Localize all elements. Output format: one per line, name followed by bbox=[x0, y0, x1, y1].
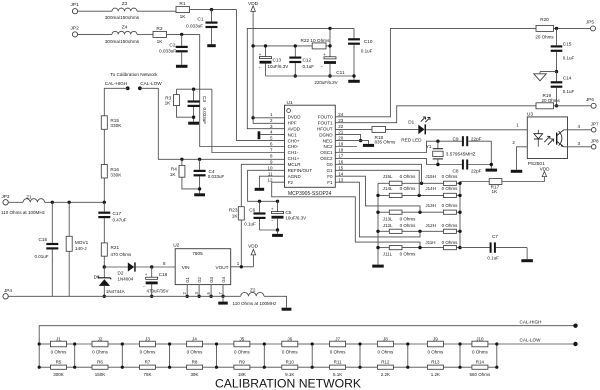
svg-text:C18: C18 bbox=[159, 272, 168, 277]
resistor R10 bbox=[282, 365, 298, 369]
wire bbox=[217, 366, 234, 368]
svg-text:Z1: Z1 bbox=[26, 194, 32, 199]
wire G1 pin15 to J14 bbox=[335, 170, 419, 195]
capacitor C15 bbox=[556, 28, 558, 45]
wire bbox=[402, 230, 444, 232]
svg-text:0.033uF: 0.033uF bbox=[208, 174, 225, 179]
svg-text:R7: R7 bbox=[145, 360, 151, 365]
wire bbox=[378, 182, 389, 184]
svg-text:JP6: JP6 bbox=[586, 97, 594, 102]
wire AGND pin11 bbox=[259, 176, 284, 188]
svg-text:C2: C2 bbox=[169, 42, 175, 48]
wire FOUT1 net bbox=[335, 106, 536, 123]
svg-text:C11: C11 bbox=[336, 70, 345, 75]
ground Z2 bbox=[282, 308, 292, 311]
wire CAL-HIGH bus bbox=[39, 326, 575, 344]
svg-text:0 Ohms: 0 Ohms bbox=[400, 186, 417, 191]
svg-text:R8: R8 bbox=[192, 360, 198, 365]
wire divider bbox=[169, 344, 171, 367]
svg-text:CAL-HIGH: CAL-HIGH bbox=[520, 319, 542, 324]
capacitor C7 bbox=[460, 247, 490, 249]
wire bbox=[554, 105, 592, 107]
node bbox=[376, 246, 379, 249]
svg-text:J12H: J12H bbox=[425, 223, 436, 228]
node bbox=[263, 342, 266, 345]
svg-text:JP7: JP7 bbox=[591, 121, 599, 126]
connector JP4 bbox=[3, 294, 8, 299]
wire bbox=[378, 230, 389, 232]
inductor Z3 bbox=[112, 8, 137, 11]
svg-text:0.1uF: 0.1uF bbox=[563, 55, 575, 60]
svg-text:MOV1: MOV1 bbox=[75, 240, 89, 245]
svg-text:C16: C16 bbox=[39, 237, 48, 242]
wire divider bbox=[74, 344, 76, 367]
svg-text:JP8: JP8 bbox=[591, 138, 599, 143]
svg-text:G0: G0 bbox=[327, 162, 334, 167]
svg-text:20 Ohms: 20 Ohms bbox=[535, 34, 554, 39]
svg-text:12: 12 bbox=[267, 177, 273, 182]
wire bbox=[137, 33, 153, 35]
wire bbox=[386, 128, 419, 130]
svg-text:Z3: Z3 bbox=[122, 1, 128, 7]
resistor R17 bbox=[460, 181, 489, 183]
wire bbox=[402, 211, 444, 213]
wire divider bbox=[263, 344, 265, 367]
svg-text:R14: R14 bbox=[476, 360, 485, 365]
svg-text:-: - bbox=[259, 64, 261, 70]
svg-text:0.033uF: 0.033uF bbox=[186, 24, 203, 29]
wire bbox=[8, 201, 23, 203]
resistor R20 bbox=[536, 25, 554, 31]
svg-text:0 Ohms: 0 Ohms bbox=[442, 223, 459, 228]
connector JP1 bbox=[72, 9, 77, 14]
wire F1 pin13 to J12 bbox=[335, 182, 420, 237]
jumper J13H bbox=[444, 210, 457, 214]
svg-text:17: 17 bbox=[338, 154, 344, 159]
ground R4/C4 bbox=[194, 193, 205, 196]
node bbox=[420, 182, 423, 185]
node DVDD bbox=[251, 116, 254, 119]
resistor R8 bbox=[187, 365, 203, 369]
wire bbox=[75, 366, 92, 368]
capacitor C12 bbox=[294, 46, 296, 57]
svg-text:15: 15 bbox=[338, 165, 344, 170]
svg-text:75K: 75K bbox=[143, 372, 151, 377]
svg-text:DVDD: DVDD bbox=[288, 115, 302, 120]
wire bbox=[402, 247, 444, 249]
svg-text:VDD: VDD bbox=[540, 166, 551, 171]
jumper J5 bbox=[234, 341, 250, 347]
svg-text:AVDD: AVDD bbox=[288, 126, 301, 131]
wire bbox=[312, 343, 329, 345]
wire bbox=[402, 194, 444, 196]
svg-text:R11: R11 bbox=[334, 360, 342, 365]
wire line rail bbox=[45, 201, 105, 203]
svg-text:0 Ohms: 0 Ohms bbox=[472, 350, 489, 355]
connector JP6 bbox=[591, 103, 596, 108]
svg-text:CAL-LOW: CAL-LOW bbox=[140, 81, 162, 86]
wire divider bbox=[459, 344, 461, 367]
svg-text:JP1: JP1 bbox=[71, 2, 80, 8]
svg-text:24: 24 bbox=[338, 112, 344, 117]
svg-text:VOUT: VOUT bbox=[215, 265, 228, 270]
node bbox=[376, 230, 379, 233]
wire VDD rail2 bbox=[253, 45, 312, 47]
wire HFOUT pin22 bbox=[335, 128, 372, 130]
svg-text:1K: 1K bbox=[165, 101, 172, 106]
capacitor C3 bbox=[192, 88, 195, 91]
wire bbox=[456, 182, 460, 184]
svg-text:-: - bbox=[321, 64, 323, 70]
svg-text:G1: G1 bbox=[185, 276, 190, 282]
svg-text:To Calibration Network: To Calibration Network bbox=[110, 72, 158, 77]
svg-text:CALIBRATION NETWORK: CALIBRATION NETWORK bbox=[215, 377, 361, 390]
svg-text:CH1-: CH1- bbox=[288, 150, 299, 155]
ground AGND bbox=[255, 188, 265, 191]
svg-text:0.033uF: 0.033uF bbox=[202, 108, 207, 125]
wire CAL-LOW to CH1+ bbox=[140, 88, 285, 159]
svg-text:VDD: VDD bbox=[248, 243, 259, 248]
wire bbox=[122, 343, 139, 345]
svg-text:VIN: VIN bbox=[182, 265, 190, 270]
svg-text:0 Ohms: 0 Ohms bbox=[400, 217, 417, 222]
inductor Z4 bbox=[112, 31, 137, 34]
ground R3/C3 bbox=[188, 122, 199, 125]
node bbox=[73, 342, 76, 345]
svg-text:0 Ohms: 0 Ohms bbox=[442, 186, 459, 191]
svg-text:J2: J2 bbox=[98, 336, 103, 341]
svg-text:14: 14 bbox=[338, 171, 344, 176]
wire divider bbox=[407, 344, 409, 367]
svg-text:R20: R20 bbox=[540, 17, 549, 22]
resistor R3 bbox=[176, 89, 178, 94]
resistor R19 bbox=[536, 103, 554, 109]
ground C1 bbox=[207, 44, 216, 47]
jumper J8 bbox=[377, 341, 393, 347]
wire CH1- bbox=[212, 89, 285, 152]
capacitor C11 bbox=[329, 28, 331, 56]
svg-text:2.2K: 2.2K bbox=[381, 372, 390, 377]
node bbox=[376, 194, 379, 197]
wire bbox=[170, 343, 187, 345]
wire bbox=[122, 366, 139, 368]
svg-text:1.2K: 1.2K bbox=[431, 372, 440, 377]
svg-text:1N4004: 1N4004 bbox=[118, 277, 134, 282]
wire bbox=[456, 230, 460, 232]
U3 phototransistor bbox=[556, 133, 558, 145]
svg-text:JP2: JP2 bbox=[71, 25, 80, 31]
wire U3 pin4 to JP7 bbox=[564, 129, 592, 131]
wire F0 pin14 to J13 bbox=[335, 176, 420, 212]
node R1 out bbox=[210, 8, 213, 11]
diode D2 1N4004 bbox=[104, 266, 128, 268]
jumper J1 bbox=[51, 341, 67, 347]
svg-text:300K: 300K bbox=[53, 372, 64, 377]
resistor R21 bbox=[101, 243, 107, 256]
svg-text:OSC1: OSC1 bbox=[320, 150, 333, 155]
svg-text:140-J: 140-J bbox=[75, 246, 87, 251]
svg-text:470 Ohms: 470 Ohms bbox=[111, 252, 133, 257]
wire U3 pin2 to ground bbox=[517, 147, 528, 170]
node bbox=[251, 44, 254, 47]
wire bbox=[468, 140, 491, 142]
wire left end bbox=[38, 344, 40, 367]
capacitor C13 bbox=[265, 46, 267, 57]
svg-text:3.579545MHZ: 3.579545MHZ bbox=[446, 151, 476, 156]
jumper J4 bbox=[187, 341, 203, 347]
svg-text:J11H: J11H bbox=[425, 240, 435, 245]
wire bbox=[104, 88, 127, 116]
svg-text:R6: R6 bbox=[97, 360, 103, 365]
wire pin1 bbox=[253, 117, 284, 119]
jumper J12H bbox=[444, 229, 457, 233]
svg-text:18: 18 bbox=[338, 148, 344, 153]
wire R17 to VDD bbox=[502, 177, 545, 182]
resistor R2 bbox=[153, 31, 167, 37]
svg-text:0 Ohms: 0 Ohms bbox=[400, 252, 417, 257]
node bbox=[458, 211, 461, 214]
svg-text:330K: 330K bbox=[110, 172, 122, 177]
wire bbox=[103, 178, 105, 202]
wire bbox=[39, 343, 50, 345]
wire VOUT to VDD bbox=[231, 266, 254, 268]
ground bar NC1 bbox=[258, 131, 261, 139]
ground oscillator bbox=[486, 169, 498, 172]
node bbox=[418, 211, 421, 214]
node bbox=[376, 211, 379, 214]
wire bbox=[456, 247, 460, 249]
svg-text:D2: D2 bbox=[118, 270, 124, 275]
svg-text:0 Ohms: 0 Ohms bbox=[442, 240, 459, 245]
capacitor C8 bbox=[462, 160, 464, 170]
node bbox=[168, 342, 171, 345]
svg-text:23: 23 bbox=[338, 118, 344, 123]
svg-text:NEG: NEG bbox=[323, 138, 333, 143]
node rail C11 bbox=[328, 27, 331, 30]
op-amp U1 MCP3905 box bbox=[285, 105, 336, 187]
svg-text:0 Ohms: 0 Ohms bbox=[187, 350, 204, 355]
wire bbox=[75, 343, 92, 345]
wire R3/C3 node bbox=[177, 88, 212, 90]
wire F2 pin12 to J11 row bbox=[272, 182, 420, 247]
svg-text:Y1: Y1 bbox=[426, 144, 432, 149]
resistor R18 bbox=[372, 126, 386, 132]
node bbox=[358, 342, 361, 345]
wire CH0+ bbox=[237, 10, 285, 141]
wire divider bbox=[359, 344, 361, 367]
wire VDD to DVDD/HPF bbox=[253, 11, 284, 123]
svg-text:C12: C12 bbox=[303, 58, 312, 63]
svg-text:0 Ohms: 0 Ohms bbox=[92, 350, 109, 355]
zener D3 1N4744A bbox=[103, 267, 105, 278]
svg-text:JP3: JP3 bbox=[2, 194, 10, 199]
capacitor C6 bbox=[258, 200, 261, 203]
wire bbox=[378, 211, 389, 213]
svg-text:U1: U1 bbox=[287, 100, 293, 106]
wire bbox=[408, 343, 428, 345]
wire bbox=[378, 247, 389, 249]
wire bbox=[326, 45, 330, 47]
svg-text:U3: U3 bbox=[527, 111, 533, 117]
regulator U2 7805 bbox=[175, 249, 231, 285]
svg-text:11: 11 bbox=[268, 171, 273, 176]
wire CH0- bbox=[200, 34, 285, 146]
wire bbox=[217, 343, 234, 345]
wire bbox=[554, 27, 591, 29]
svg-text:+: + bbox=[145, 272, 148, 277]
wire left jumper bus bbox=[377, 183, 379, 264]
svg-text:HFOUT: HFOUT bbox=[317, 126, 333, 131]
jumper J14H bbox=[444, 193, 457, 197]
ground bbox=[272, 234, 283, 237]
svg-text:150K: 150K bbox=[95, 372, 106, 377]
wire bbox=[78, 10, 112, 12]
svg-text:21: 21 bbox=[338, 130, 344, 135]
ground C7 bbox=[521, 259, 533, 262]
wire ground return rail bbox=[266, 75, 355, 77]
svg-text:R5: R5 bbox=[56, 360, 62, 365]
jumper J12L bbox=[389, 229, 402, 233]
svg-text:G4: G4 bbox=[221, 276, 226, 282]
svg-text:FOUT0: FOUT0 bbox=[318, 115, 333, 120]
node CAL-HIGH bbox=[573, 324, 577, 328]
svg-text:D1: D1 bbox=[408, 119, 414, 124]
svg-text:C5: C5 bbox=[285, 210, 291, 215]
svg-text:C6: C6 bbox=[249, 208, 255, 213]
wire C5/C6 ground bbox=[260, 229, 278, 231]
svg-text:J12L: J12L bbox=[383, 223, 393, 228]
svg-text:J6: J6 bbox=[287, 336, 292, 341]
capacitor C5 bbox=[276, 200, 279, 203]
svg-text:G1: G1 bbox=[327, 168, 334, 173]
svg-text:1K: 1K bbox=[157, 39, 164, 45]
resistor R7 bbox=[139, 365, 155, 369]
svg-text:470uF/35V: 470uF/35V bbox=[147, 289, 169, 294]
svg-text:CAL-LOW: CAL-LOW bbox=[520, 337, 542, 342]
svg-text:1N4744A: 1N4744A bbox=[106, 289, 125, 294]
svg-text:0 Ohms: 0 Ohms bbox=[234, 350, 251, 355]
wire U3 pin3 to JP8 bbox=[564, 146, 592, 148]
svg-text:J14L: J14L bbox=[383, 186, 393, 191]
wire DGND pin21 bbox=[335, 135, 360, 141]
svg-text:R22 10 Ohms: R22 10 Ohms bbox=[301, 38, 331, 43]
svg-text:0 Ohms: 0 Ohms bbox=[400, 223, 417, 228]
optocoupler U3 PS2501 bbox=[527, 117, 567, 159]
wire bottom rail bbox=[8, 295, 240, 297]
svg-text:0.1uF: 0.1uF bbox=[361, 49, 373, 54]
U3 light arrows bbox=[544, 136, 550, 142]
svg-text:NC2: NC2 bbox=[323, 144, 333, 149]
wire osc ground bbox=[490, 141, 492, 168]
svg-text:F0: F0 bbox=[327, 174, 333, 179]
svg-text:FOUT1: FOUT1 bbox=[318, 120, 333, 125]
svg-text:0.1uF: 0.1uF bbox=[563, 89, 575, 94]
node bbox=[215, 342, 218, 345]
svg-text:CAL-HIGH: CAL-HIGH bbox=[105, 81, 127, 86]
svg-text:300ma/150ohms: 300ma/150ohms bbox=[105, 15, 140, 20]
inductor Z1 bbox=[23, 199, 45, 203]
svg-text:0 Ohms: 0 Ohms bbox=[400, 174, 417, 179]
node bbox=[458, 182, 461, 185]
wire AVDD rail bbox=[247, 28, 354, 128]
resistor R9 bbox=[234, 365, 250, 369]
svg-text:22: 22 bbox=[338, 124, 344, 129]
resistor R5 bbox=[51, 365, 67, 369]
svg-text:C7: C7 bbox=[492, 234, 498, 239]
svg-text:J8: J8 bbox=[383, 336, 388, 341]
node bbox=[311, 342, 314, 345]
wire CAL-LOW tail bbox=[497, 343, 576, 345]
svg-text:J10: J10 bbox=[476, 336, 484, 341]
svg-text:RED LED: RED LED bbox=[401, 138, 422, 143]
resistor R16 bbox=[101, 165, 107, 179]
svg-text:0.1uF: 0.1uF bbox=[303, 64, 315, 69]
svg-text:R21: R21 bbox=[111, 245, 120, 250]
resistor R23 bbox=[238, 207, 244, 220]
svg-text:C17: C17 bbox=[113, 211, 122, 216]
wire MCLR pin9 bbox=[241, 164, 284, 206]
ground U3 pin2 bbox=[511, 170, 523, 173]
capacitor C14 bbox=[556, 72, 558, 82]
svg-text:DGND: DGND bbox=[319, 132, 333, 137]
jumper J7 bbox=[330, 341, 346, 347]
LED D1 bbox=[418, 125, 424, 135]
wire bbox=[264, 366, 282, 368]
resistor R4 bbox=[180, 158, 183, 161]
svg-text:Z2: Z2 bbox=[250, 287, 256, 292]
svg-text:U2: U2 bbox=[173, 243, 179, 249]
svg-text:F1: F1 bbox=[327, 180, 333, 185]
wire right jumper bus bbox=[459, 182, 461, 248]
wire bbox=[360, 366, 377, 368]
wire NC2 pin19 stub bbox=[335, 146, 357, 148]
svg-text:REFIN/OUT: REFIN/OUT bbox=[288, 168, 313, 173]
wire G0 pin16 to J15 bbox=[335, 164, 421, 183]
svg-text:J13H: J13H bbox=[425, 203, 436, 208]
wire NEG pin20 bbox=[335, 141, 368, 144]
svg-text:0 Ohms: 0 Ohms bbox=[51, 350, 68, 355]
svg-text:+: + bbox=[323, 52, 326, 57]
U3 internal LED bbox=[537, 130, 539, 134]
jumper J15L bbox=[389, 181, 402, 185]
svg-text:G3: G3 bbox=[209, 276, 214, 282]
svg-text:R2: R2 bbox=[156, 26, 162, 32]
capacitor C2 bbox=[181, 34, 183, 45]
svg-text:NC1: NC1 bbox=[288, 132, 298, 137]
svg-text:J5: J5 bbox=[240, 336, 245, 341]
wire bbox=[460, 343, 472, 345]
svg-text:110 Ohms at 100MHz: 110 Ohms at 100MHz bbox=[233, 301, 278, 306]
svg-text:C14: C14 bbox=[563, 75, 572, 80]
wire bbox=[264, 343, 282, 345]
svg-text:0.1uF: 0.1uF bbox=[487, 256, 499, 261]
svg-text:0.47uF: 0.47uF bbox=[113, 217, 127, 222]
resistor R14 bbox=[472, 365, 488, 369]
wire OSC1 pin18 bbox=[335, 141, 462, 152]
connector JP5 bbox=[591, 26, 596, 31]
wire bbox=[103, 256, 105, 267]
svg-text:MCLR: MCLR bbox=[288, 162, 302, 167]
svg-text:0 Ohms: 0 Ohms bbox=[140, 350, 157, 355]
svg-text:C13: C13 bbox=[273, 58, 282, 63]
wire bbox=[468, 164, 491, 166]
svg-text:J13L: J13L bbox=[383, 217, 393, 222]
wire bbox=[170, 366, 187, 368]
svg-text:1K: 1K bbox=[492, 189, 499, 194]
svg-text:R1: R1 bbox=[179, 1, 185, 7]
ground NEG bbox=[363, 144, 374, 147]
node bbox=[38, 342, 41, 345]
